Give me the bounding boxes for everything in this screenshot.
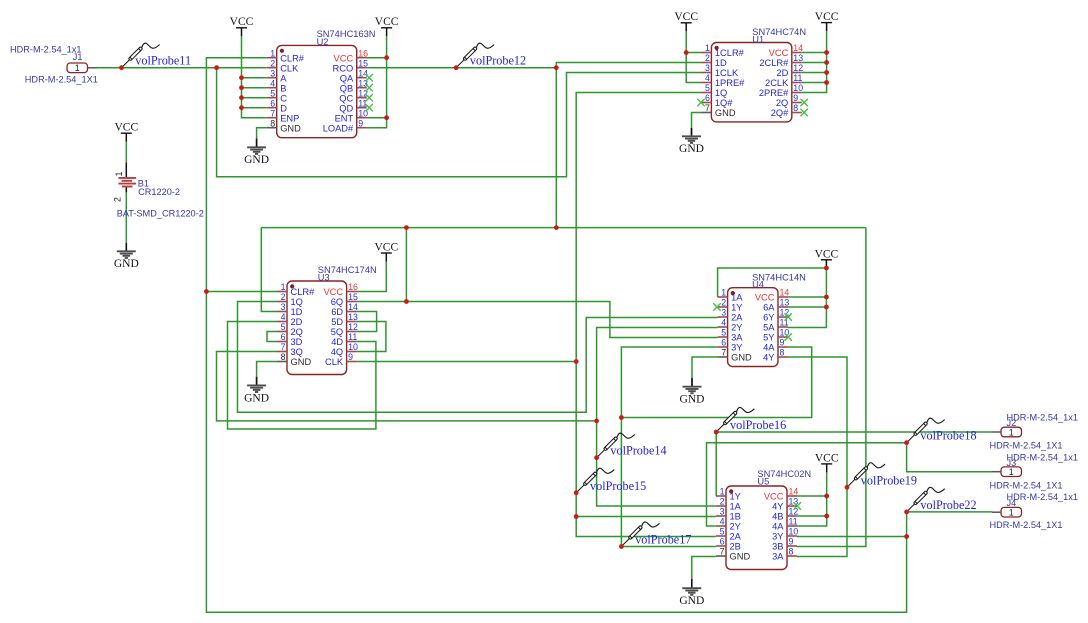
wire U3.13 5D to U3.10 4Q [357,322,386,352]
probe volProbe15 [577,468,614,491]
junction VCC U1.12 [824,70,829,75]
svg-text:HDR-M-2.54_1X1: HDR-M-2.54_1X1 [990,441,1063,451]
wire VCC rail U2 right [367,36,387,127]
svg-text:5Q: 5Q [331,327,343,337]
svg-text:CR1220-2: CR1220-2 [138,187,180,197]
svg-text:QA: QA [340,73,354,83]
svg-text:6Q: 6Q [331,297,343,307]
svg-text:RCO: RCO [333,63,354,73]
ground symbol below U2 [244,139,269,167]
U5 gnd stem black [691,579,693,588]
ground symbol below B1 [114,243,139,270]
wire net A down to U5.9 3B [797,228,866,547]
wire U4.1 1A to VCC [718,268,827,297]
wire net CLR# tap U3.1 [206,291,277,293]
wire U3 GND [257,362,277,377]
wire net 2Y rail U4.4 to U5.2 1A [597,328,718,507]
svg-text:J2: J2 [1007,418,1017,428]
svg-text:J3: J3 [1007,458,1017,468]
connector J4 HDR-M-2.54_1x1 [990,492,1078,530]
op-amp/IC U2 SN74HC163N [267,29,376,138]
svg-text:13: 13 [780,298,790,308]
svg-text:1: 1 [114,171,124,176]
wire VCC tap U5.14 [797,495,827,497]
junction VCC U5.12 [824,514,829,519]
svg-text:A: A [280,73,287,83]
svg-text:VCC: VCC [334,53,354,63]
wire net RCO U2.15 east [367,67,557,69]
VCC symbol above U1 left [674,11,698,31]
wire VCC tap U2 pin3 A [242,77,267,79]
svg-text:CLK: CLK [325,357,344,367]
wire net RCO down to netA [555,68,557,228]
svg-text:U3: U3 [318,273,330,283]
svg-text:GND: GND [291,357,312,367]
svg-text:13: 13 [793,53,803,63]
wire net 1Q U1.5 long vertical [576,93,716,537]
VCC symbol above U3 [374,241,398,261]
svg-text:1Y: 1Y [731,303,742,313]
svg-text:11: 11 [780,318,789,328]
B1 bottom stem black [125,187,127,192]
svg-text:4Q: 4Q [331,347,343,357]
svg-text:1A: 1A [730,502,742,512]
wire U3.4 2D loop [228,322,377,430]
wire U2 GND [257,128,267,139]
svg-text:7: 7 [705,103,710,113]
svg-text:6: 6 [705,93,710,103]
svg-text:1: 1 [1009,427,1014,437]
svg-text:2A: 2A [731,313,743,323]
svg-text:D: D [280,103,287,113]
svg-text:14: 14 [793,43,803,53]
svg-text:CLK: CLK [280,63,299,73]
svg-text:VCC: VCC [230,16,254,28]
junction VCC U1.1 [684,50,689,55]
junction VCC U1.14 [824,50,829,55]
wire VCC rail U1 right [802,31,827,92]
svg-text:volProbe17: volProbe17 [635,533,691,547]
svg-text:16: 16 [348,282,358,292]
svg-text:VCC: VCC [674,11,698,23]
svg-text:6D: 6D [331,307,343,317]
svg-text:volProbe11: volProbe11 [135,54,191,68]
svg-text:3A: 3A [731,333,743,343]
svg-text:2Y: 2Y [731,323,742,333]
wire U3.7 3Q to x596 rail [217,352,597,421]
svg-text:1Q: 1Q [715,88,727,98]
svg-text:6: 6 [270,98,275,108]
op-amp/IC U4 SN74HC14N [718,272,806,366]
wire VCC to B1 [125,142,127,163]
wire VCC tap U2 pin4 B [242,87,267,89]
wire U5.1 1Y up to J2 [716,432,992,496]
junction 1Q U5.1B [574,514,579,519]
svg-text:3Y: 3Y [731,343,742,353]
svg-text:9: 9 [789,537,794,547]
junction CLK J1 x216 [214,65,219,70]
svg-text:2Q#: 2Q# [771,108,789,118]
svg-text:6Y: 6Y [763,313,774,323]
svg-text:10: 10 [348,342,358,352]
svg-text:2: 2 [720,497,725,507]
svg-text:14: 14 [780,288,790,298]
probe volProbe14 [598,433,635,456]
wire VCC tap U2 pin5 C [242,97,267,99]
wire VCC rail to U2 pins A-D,ENP [242,36,267,117]
op-amp/IC U5 SN74HC02N [716,469,811,569]
op-amp/IC U1 SN74HC74N [701,27,806,122]
svg-text:HDR-M-2.54_1x1: HDR-M-2.54_1x1 [10,45,81,55]
VCC symbol above U2 left [230,16,254,36]
svg-text:VCC: VCC [114,122,138,134]
svg-text:3: 3 [281,302,286,312]
probe volProbe17 [623,522,660,545]
wire U5.4 2Y up to probe18 [707,443,907,526]
probe volProbe12 [457,43,494,66]
wire net A 6Q east to U4.5 3A [357,302,718,338]
svg-text:8: 8 [793,103,798,113]
svg-text:2Y: 2Y [730,522,741,532]
junction VCC U2.A [239,75,244,80]
svg-text:HDR-M-2.54_1X1: HDR-M-2.54_1X1 [25,75,98,85]
svg-text:U5: U5 [757,477,769,487]
svg-text:6: 6 [720,537,725,547]
svg-text:8: 8 [789,547,794,557]
junction VCC U2.B [239,85,244,90]
U1 gnd stem black [691,128,693,136]
svg-text:5: 5 [705,83,710,93]
svg-text:2Q: 2Q [776,98,788,108]
junction VCC U2.C [239,95,244,100]
svg-text:1: 1 [1009,467,1014,477]
junction VCC U4 top [824,266,829,271]
svg-text:6: 6 [281,332,286,342]
svg-text:2D: 2D [291,317,303,327]
svg-text:volProbe16: volProbe16 [730,418,786,432]
ground symbol below U3 [244,377,269,404]
svg-text:12: 12 [348,322,358,332]
wire net 1Q tap U3.9 CLK [357,361,577,363]
svg-text:GND: GND [680,394,705,406]
svg-text:5A: 5A [763,323,775,333]
wire net A to U3.3 1D [261,228,277,312]
svg-text:GND: GND [679,143,704,155]
wire VCC tap U1.14 [802,52,827,54]
svg-text:1: 1 [281,282,286,292]
svg-text:4: 4 [721,318,726,328]
wire VCC rail U3 [357,262,387,292]
svg-text:1A: 1A [731,293,743,303]
svg-text:4A: 4A [763,343,775,353]
connector J1 HDR-M-2.54_1x1 [10,45,98,85]
wire U4 GND [692,357,718,378]
VCC symbol above B1 [114,122,138,142]
svg-text:1: 1 [270,48,275,58]
no-connect U4.12 6Y [785,313,792,320]
wire net 1Q tap U5.3 1B [576,516,716,518]
wire net CLR# tap U5.3Y [797,536,907,538]
svg-text:1: 1 [1009,508,1014,518]
svg-text:J1: J1 [73,52,83,62]
svg-text:1CLR#: 1CLR# [715,48,745,58]
svg-text:4: 4 [281,312,286,322]
wire net C U4.6 3Y rail [621,347,717,547]
U3 gnd stem black [256,377,258,386]
junction netA x406 [404,225,409,230]
junction VCC U2.16 [384,55,389,60]
svg-text:7: 7 [720,547,725,557]
ground symbol below U1 [679,128,704,155]
wire net A to U3.15 6Q [405,228,407,302]
wire VCC tap U2 pin6 D [242,107,267,109]
svg-text:2CLK: 2CLK [765,78,789,88]
no-connect U1.9 2Q [801,99,808,106]
svg-text:HDR-M-2.54_1x1: HDR-M-2.54_1x1 [1007,452,1078,462]
svg-text:4Y: 4Y [772,502,783,512]
svg-text:13: 13 [348,312,358,322]
svg-text:2A: 2A [730,532,742,542]
no-connect U1.8 2Q# [801,109,808,116]
svg-text:5: 5 [720,527,725,537]
svg-text:7: 7 [281,342,286,352]
svg-text:14: 14 [789,487,799,497]
svg-text:1: 1 [720,487,725,497]
U2 gnd stem black [256,139,258,148]
svg-text:CLR#: CLR# [291,287,316,297]
wire U4.8 4Y to U5.8 3A [788,357,847,557]
no-connect U2.12 QC [366,94,373,101]
svg-text:16: 16 [358,48,368,58]
no-connect U4.2 1Y [713,303,720,310]
svg-text:GND: GND [244,392,269,404]
svg-text:15: 15 [348,292,358,302]
svg-text:2: 2 [112,197,122,202]
svg-text:VCC: VCC [815,453,839,465]
svg-text:9: 9 [793,93,798,103]
svg-text:14: 14 [348,302,358,312]
wire VCC tap U1.1 [686,52,701,54]
svg-text:8: 8 [281,352,286,362]
wire U3.11 4D down [357,342,376,430]
op-amp/IC U3 SN74HC174N [277,265,377,375]
junction VCC U1.11 [824,80,829,85]
ground symbol below U5 [679,579,704,607]
svg-text:1: 1 [705,43,710,53]
battery B1 CR1220-2 [112,171,203,218]
wire VCC tap U5.12 4B [797,515,827,517]
svg-text:12: 12 [793,63,803,73]
wire U5 GND [692,557,716,580]
svg-text:8: 8 [270,118,275,128]
svg-text:VCC: VCC [769,48,789,58]
svg-text:2: 2 [270,58,275,68]
svg-text:6: 6 [721,338,726,348]
svg-text:GND: GND [114,258,139,270]
junction CLR U3.1 [204,289,209,294]
wire VCC rail U1 left [686,31,701,82]
svg-text:2PRE#: 2PRE# [759,88,789,98]
svg-text:VCC: VCC [374,241,398,253]
svg-text:GND: GND [280,123,301,133]
svg-text:2Q: 2Q [291,327,303,337]
junction VCC U2.10 [384,115,389,120]
svg-text:4B: 4B [772,512,783,522]
no-connect U2.14 QA [366,74,373,81]
svg-text:3D: 3D [291,337,303,347]
svg-text:U2: U2 [317,37,329,47]
VCC symbol above U1 right [815,11,839,31]
svg-text:1: 1 [75,63,80,73]
svg-text:11: 11 [348,332,357,342]
svg-text:5Y: 5Y [763,333,774,343]
svg-text:14: 14 [358,68,368,78]
svg-text:volProbe12: volProbe12 [470,54,526,68]
svg-text:9: 9 [780,338,785,348]
junction VCC U4.13 [824,305,829,310]
svg-text:1D: 1D [715,58,727,68]
connector J3 HDR-M-2.54_1x1 [990,452,1078,490]
svg-text:1B: 1B [730,512,741,522]
svg-text:HDR-M-2.54_1x1: HDR-M-2.54_1x1 [1007,492,1078,502]
svg-text:B: B [280,83,286,93]
svg-text:1: 1 [721,288,726,298]
junction CLR U5.3Y [904,534,909,539]
svg-text:GND: GND [715,108,736,118]
svg-text:volProbe22: volProbe22 [920,498,976,512]
svg-text:1Q#: 1Q# [715,98,733,108]
wire net CLK down-across [217,68,702,177]
svg-text:4D: 4D [331,337,343,347]
svg-text:2: 2 [705,53,710,63]
svg-text:4: 4 [705,73,710,83]
VCC symbol above U2 right [375,16,399,36]
wire VCC rail U5 [797,472,827,526]
svg-text:4Y: 4Y [763,353,774,363]
svg-text:1Y: 1Y [730,492,741,502]
junction 3Q rail [594,419,599,424]
svg-text:2CLR#: 2CLR# [759,58,789,68]
svg-text:2: 2 [721,298,726,308]
svg-text:VCC: VCC [375,16,399,28]
svg-text:1PRE#: 1PRE# [715,78,745,88]
no-connect U2.11 QD [366,104,373,111]
svg-text:5D: 5D [331,317,343,327]
svg-text:4A: 4A [772,522,784,532]
svg-text:U1: U1 [752,35,764,45]
wire U1 GND [692,113,702,129]
probe volProbe18 [908,418,945,441]
svg-text:9: 9 [358,118,363,128]
VCC symbol above U5 [815,453,839,473]
svg-text:8: 8 [780,348,785,358]
svg-text:GND: GND [730,552,751,562]
svg-text:QC: QC [339,93,353,103]
svg-text:3: 3 [270,68,275,78]
svg-text:HDR-M-2.54_1X1: HDR-M-2.54_1X1 [990,480,1063,490]
svg-text:U4: U4 [752,279,764,289]
wire VCC tap U1.12 [802,72,827,74]
B1 top stem black [125,163,127,178]
svg-text:7: 7 [270,108,275,118]
probe volProbe16 [717,407,754,430]
svg-text:5: 5 [721,328,726,338]
svg-text:3: 3 [720,507,725,517]
svg-text:GND: GND [679,595,704,607]
svg-text:3Q: 3Q [291,347,303,357]
wire VCC tap U1.11 [802,82,827,84]
junction VCC U2.D [239,105,244,110]
svg-text:10: 10 [793,83,803,93]
no-connect U5.13 4Y [794,502,801,509]
wire VCC tap U1.13 [802,62,827,64]
svg-text:2: 2 [281,292,286,302]
wire net CLR# to J4 [907,511,993,513]
wire net RCO jog to U1.2 1D [556,63,701,68]
no-connect U2.13 QB [366,84,373,91]
svg-text:volProbe19: volProbe19 [861,473,917,487]
junction VCC U1.13 [824,60,829,65]
connector J2 HDR-M-2.54_1x1 [990,412,1078,450]
svg-text:VCC: VCC [815,11,839,23]
probe volProbe22 [908,487,945,510]
svg-text:9: 9 [348,352,353,362]
wire net CLR# U2.1 to bottom [206,58,906,613]
wire VCC tap U2.10 ENT [367,117,387,119]
svg-text:4: 4 [270,78,275,88]
wire VCC rail U4 [788,268,826,327]
svg-text:CLR#: CLR# [280,53,305,63]
svg-text:3A: 3A [772,552,784,562]
svg-text:QD: QD [339,103,353,113]
svg-text:4: 4 [720,517,725,527]
svg-text:VCC: VCC [815,249,839,261]
junction VCC U4.14 [824,295,829,300]
probe volProbe19 [848,463,885,486]
svg-text:HDR-M-2.54_1X1: HDR-M-2.54_1X1 [990,520,1063,530]
svg-text:3Y: 3Y [772,532,783,542]
svg-text:ENP: ENP [280,113,299,123]
no-connect U4.10 5Y [785,333,792,340]
svg-text:10: 10 [789,527,799,537]
svg-text:7: 7 [721,348,726,358]
svg-text:volProbe14: volProbe14 [610,444,666,458]
probe volProbe11 [123,43,160,66]
svg-text:ENT: ENT [335,113,354,123]
svg-text:11: 11 [789,517,798,527]
junction VCC U5.14 [824,494,829,499]
junction netC branch [619,415,624,420]
wire net C branch to U4.9 4A [621,347,811,418]
wire VCC tap U4.13 6A [788,306,826,308]
svg-text:volProbe18: volProbe18 [920,429,976,443]
svg-text:5: 5 [270,88,275,98]
svg-text:1Q: 1Q [291,297,303,307]
no-connect U1.6 1Q# [697,99,704,106]
wire net CLK J1 to U2.2 [96,67,267,69]
wire U3.2 1Q to U4.3 2A [238,302,718,413]
wire probe18 to J3 [907,443,993,472]
U4 gnd stem black [691,378,693,387]
wire B1 to GND [125,189,127,244]
svg-text:2D: 2D [776,68,788,78]
svg-text:VCC: VCC [764,492,784,502]
wire U3.5 2Q to U3.6 3D [267,332,277,342]
wire net A horizontal [261,227,866,229]
svg-text:LOAD#: LOAD# [323,123,354,133]
svg-text:GND: GND [244,154,269,166]
junction netA x556 [554,225,559,230]
